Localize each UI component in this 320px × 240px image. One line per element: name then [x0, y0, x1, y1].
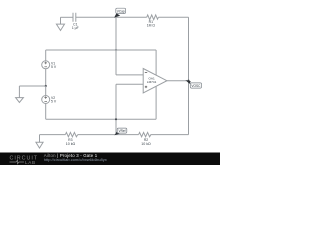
resistor R1: [147, 15, 159, 28]
node VOSC label: [185, 80, 201, 88]
wire R1 to right rail corner: [158, 16, 188, 18]
ground (bottom-left): [36, 135, 43, 149]
footer bar: [0, 153, 220, 166]
resistor R2: [139, 132, 151, 146]
junction crossing VCap/V+ rail: [115, 49, 116, 50]
svg-text:VCap: VCap: [117, 9, 125, 13]
svg-text:1M Ω: 1M Ω: [147, 24, 156, 28]
svg-text:1 µF: 1 µF: [72, 26, 79, 30]
wire bottom rail ground to R3: [40, 134, 66, 136]
junction V- rail / VRef line: [115, 118, 117, 120]
svg-text:VRef: VRef: [118, 129, 125, 133]
svg-text:LM741: LM741: [147, 80, 157, 84]
svg-text:10 kΩ: 10 kΩ: [66, 142, 76, 146]
wire V- supply rail from V2: [46, 118, 156, 120]
wire VCap vertical (node to inverting input): [115, 17, 117, 75]
svg-text:VOSC: VOSC: [191, 84, 201, 88]
wire ground branch: [19, 86, 45, 98]
wire capacitor to R1: [76, 16, 147, 18]
capacitor C1: [72, 13, 79, 30]
resistor R3: [65, 132, 77, 146]
wire VRef vertical (non-inverting input to bottom rail): [115, 84, 117, 134]
ground (top-left): [56, 17, 64, 30]
wire op-amp output: [167, 80, 189, 82]
wire right vertical rail: [188, 17, 190, 134]
svg-text:5 V: 5 V: [51, 100, 57, 104]
wire V+ supply rail from V1: [46, 49, 156, 51]
voltage source V2: [42, 86, 57, 119]
wire V+ pin drop: [155, 50, 157, 75]
junction output / right rail: [187, 80, 189, 82]
junction V1/V2/ground: [45, 85, 47, 87]
svg-text:5 V: 5 V: [51, 65, 57, 69]
wire top rail from ground to capacitor: [61, 16, 74, 18]
op-amp OA1 LM741: [143, 69, 167, 93]
svg-text:http://circuitlab.com/c/bxw6k4: http://circuitlab.com/c/bxw6k4bu8yx: [44, 157, 107, 162]
voltage source V1: [42, 50, 57, 86]
node VCap label: [114, 8, 125, 17]
svg-text:LAB: LAB: [25, 160, 36, 165]
svg-text:10 kΩ: 10 kΩ: [141, 142, 151, 146]
wire R3 to R2: [78, 134, 139, 136]
CircuitLab logo: [10, 155, 39, 164]
ground (middle-left): [16, 98, 24, 103]
wire non-inverting input horizontal: [116, 83, 143, 85]
wire R2 to right rail: [151, 134, 189, 136]
wire V- pin riser: [155, 86, 157, 119]
node VRef label: [114, 128, 126, 135]
wire inverting input horizontal: [116, 74, 143, 76]
